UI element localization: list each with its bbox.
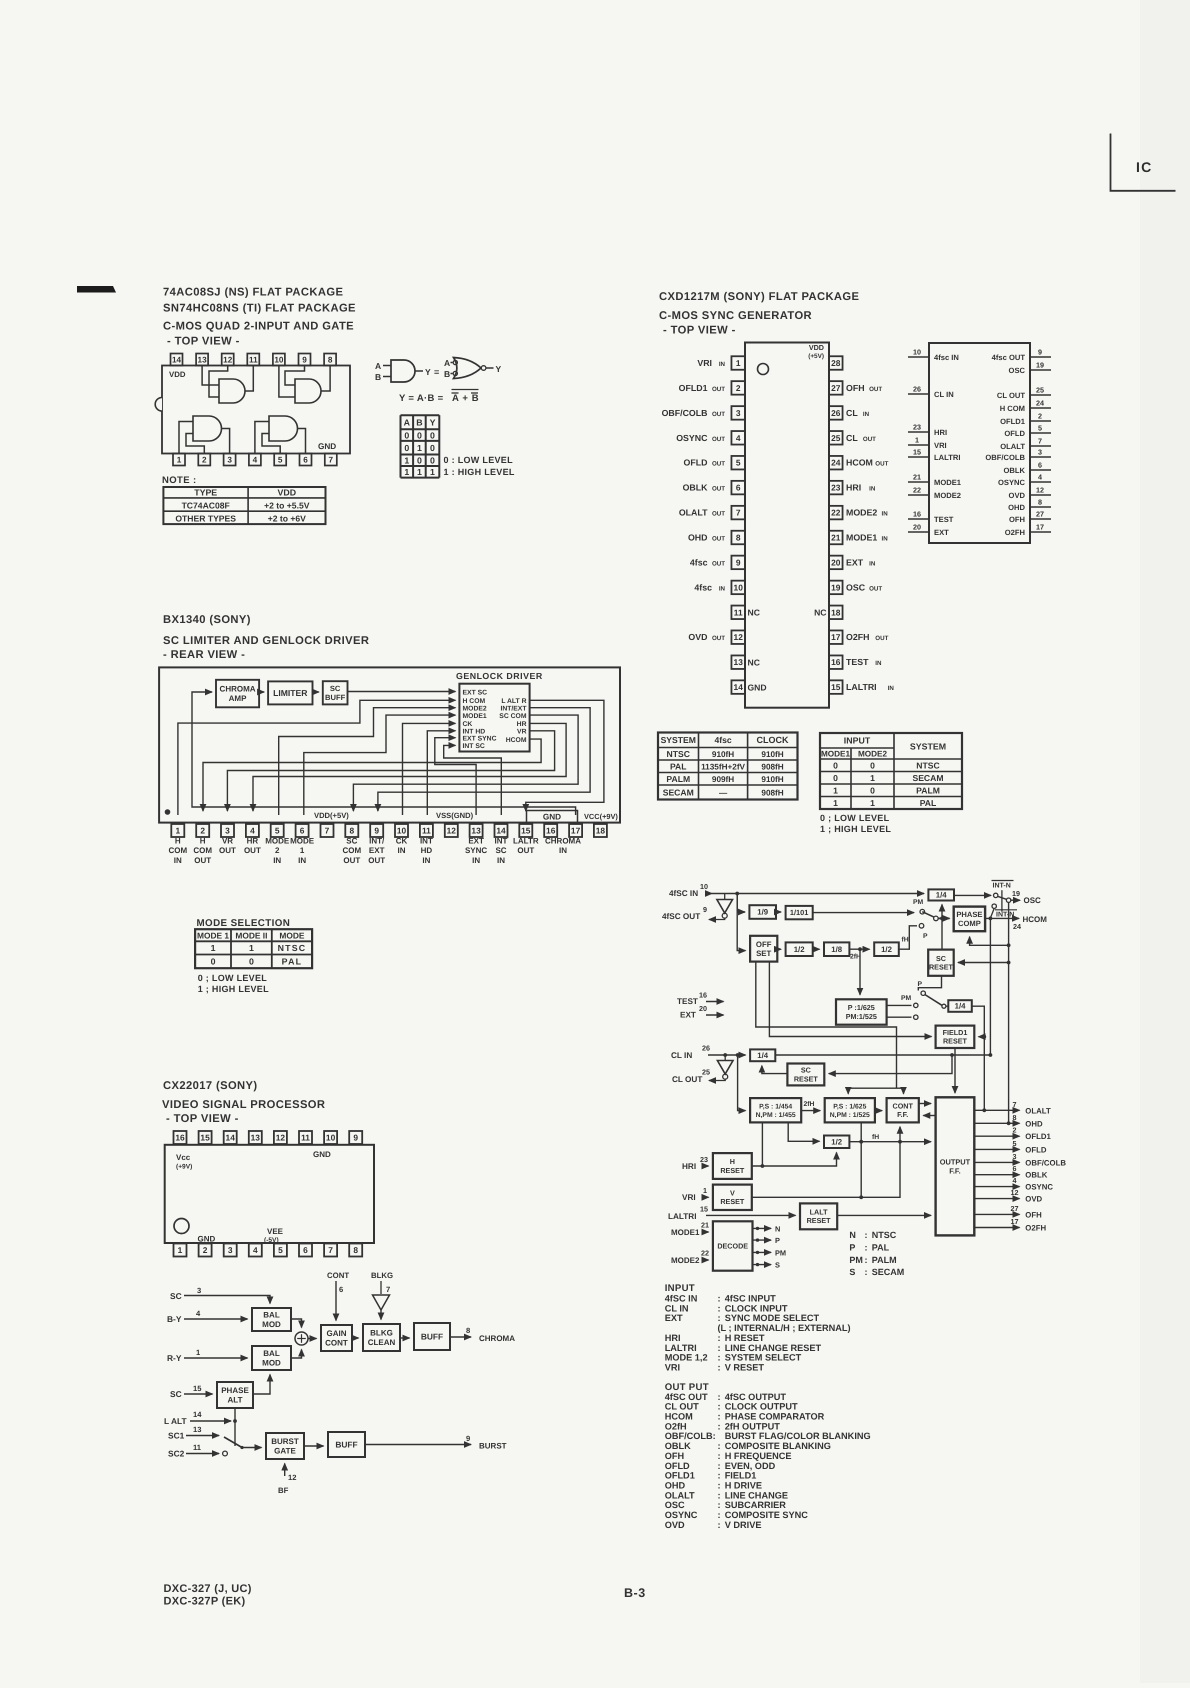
svg-text:1/2: 1/2 (831, 1138, 843, 1147)
svg-text:24: 24 (1013, 922, 1021, 931)
svg-text:16: 16 (913, 510, 921, 519)
svg-text:7: 7 (736, 508, 741, 518)
svg-text:S: S (775, 1261, 780, 1270)
svg-text:OFLD1: OFLD1 (679, 383, 708, 393)
svg-text:15: 15 (831, 682, 841, 692)
wire feedback to phase comp bottom (970, 937, 1009, 946)
svg-text:1: 1 (175, 826, 180, 836)
svg-text:N,PM : 1/455: N,PM : 1/455 (756, 1112, 796, 1119)
svg-text:PAL: PAL (872, 1243, 890, 1253)
svg-text:13: 13 (193, 1425, 201, 1434)
svg-text:MOD: MOD (262, 1359, 281, 1368)
svg-text:4: 4 (736, 433, 741, 443)
svg-text:28: 28 (831, 358, 841, 368)
svg-text:O2FH: O2FH (1005, 528, 1025, 537)
long vertical V2 (1008, 902, 1010, 1123)
svg-text:O2fH: O2fH (665, 1421, 687, 1431)
wire blkg clean to buff (400, 1337, 410, 1339)
wire 454 bottom right to 1/2c (788, 1122, 819, 1141)
svg-text:RESET: RESET (720, 1197, 745, 1206)
pin 13 U4 (249, 1131, 262, 1144)
svg-text:15: 15 (521, 826, 531, 836)
pin 17 U2 functional O2FH (1030, 531, 1051, 533)
pin 18 U3 (594, 824, 607, 837)
svg-text:SN74HC08NS (TI) FLAT PACKAGE: SN74HC08NS (TI) FLAT PACKAGE (163, 303, 356, 315)
block sc reset 2 (787, 1064, 824, 1086)
svg-text:4fSC IN: 4fSC IN (669, 889, 698, 898)
wire genlock INT/EXT to pin9 (378, 708, 590, 811)
svg-text:INT-N: INT-N (996, 912, 1014, 919)
switch lever to phase comp line (922, 912, 934, 918)
svg-text:F.F.: F.F. (897, 1110, 908, 1119)
svg-text:NTSC: NTSC (278, 943, 307, 953)
pin 2 U4 (199, 1244, 212, 1257)
svg-text:2: 2 (1013, 1126, 1017, 1135)
wire 625 to cont ff (875, 1110, 882, 1112)
svg-text:TC74AC08F: TC74AC08F (182, 501, 230, 511)
svg-text:25: 25 (702, 1068, 710, 1077)
svg-text:ALT: ALT (228, 1396, 243, 1405)
wire 454 to 625 (801, 1110, 820, 1112)
block chroma amp (216, 680, 259, 708)
svg-text:VSS(GND): VSS(GND) (436, 811, 474, 820)
svg-text:0: 0 (211, 957, 216, 967)
svg-text:OBLK: OBLK (683, 483, 709, 493)
svg-text:IN: IN (888, 685, 895, 692)
svg-text:9: 9 (736, 557, 741, 567)
svg-text:PAL: PAL (282, 957, 303, 967)
svg-text:5: 5 (278, 1245, 283, 1255)
svg-text:MODE 1,2: MODE 1,2 (665, 1353, 708, 1363)
pin 13 U2 (731, 655, 745, 669)
wire switch to burst gate (242, 1447, 262, 1449)
svg-text:4fSC IN: 4fSC IN (665, 1294, 698, 1304)
svg-text:CLEAN: CLEAN (368, 1338, 396, 1347)
wire 1/2b to switch P contact (899, 926, 917, 949)
pin 2 U3 (196, 824, 209, 837)
svg-text:RESET: RESET (807, 1216, 832, 1225)
block buff 2 (328, 1432, 365, 1457)
svg-text:CL IN: CL IN (665, 1303, 689, 1313)
svg-text:CL OUT: CL OUT (997, 391, 1025, 400)
svg-text:DXC-327 (J, UC): DXC-327 (J, UC) (164, 1583, 252, 1595)
svg-text:7: 7 (329, 455, 334, 464)
svg-text:OTHER TYPES: OTHER TYPES (175, 514, 236, 524)
pin 9 U4 (349, 1131, 362, 1144)
svg-text:MODE2: MODE2 (671, 1256, 700, 1265)
block off set (750, 936, 777, 962)
svg-text:GATE: GATE (274, 1447, 296, 1456)
svg-text:18: 18 (831, 607, 841, 617)
switch select tick (1001, 890, 1003, 912)
svg-text:OBF/COLB: OBF/COLB (985, 453, 1025, 462)
wire pin14 INTSC-IN to genlock (444, 745, 502, 815)
svg-text:OUT: OUT (219, 846, 236, 855)
pin 3 U2 functional OBF/COLB (1030, 456, 1051, 458)
svg-text:EXT: EXT (369, 846, 385, 855)
svg-text:OBLK: OBLK (1025, 1171, 1047, 1180)
svg-text:CL IN: CL IN (671, 1051, 692, 1060)
pin 9 U1 (299, 354, 311, 366)
svg-text:R-Y: R-Y (167, 1353, 182, 1363)
switch lever into 1/4b (925, 995, 942, 1006)
svg-text:B: B (416, 417, 422, 427)
svg-text:PALM: PALM (666, 774, 690, 784)
output OSYNC pin4 (974, 1186, 1019, 1188)
wire feedback branch to contff top (897, 1088, 904, 1094)
svg-text:0 : LOW LEVEL: 0 : LOW LEVEL (444, 455, 514, 465)
pin 9 U3 (370, 824, 383, 837)
legend system codes (849, 1230, 904, 1277)
block divider 1/2 c (824, 1136, 849, 1149)
svg-text:(+5V): (+5V) (808, 353, 824, 360)
svg-text:Y: Y (425, 367, 431, 377)
svg-text:0: 0 (870, 785, 875, 795)
pin 12 U1 (222, 354, 234, 366)
svg-text:OUT: OUT (863, 436, 876, 443)
wire from 1/101 line down into P625 (859, 949, 861, 995)
pin 3 U1 (224, 454, 236, 466)
block buff 1 (414, 1323, 450, 1350)
svg-text:OUT: OUT (712, 386, 725, 393)
svg-text:fH: fH (872, 1134, 879, 1141)
svg-text:OUT: OUT (194, 856, 211, 865)
inverter CL OUT (724, 1055, 726, 1060)
svg-text:OLALT: OLALT (679, 508, 708, 518)
svg-text:OSC: OSC (1024, 896, 1042, 905)
svg-text:4fSC OUTPUT: 4fSC OUTPUT (725, 1392, 787, 1402)
pin 1 U2 functional VRI (908, 444, 929, 446)
svg-text:SECAM: SECAM (663, 787, 694, 797)
svg-text:22: 22 (701, 1249, 709, 1258)
wire balmod2 to sum (291, 1350, 302, 1359)
svg-text:20: 20 (831, 557, 841, 567)
svg-text:OVD: OVD (665, 1520, 685, 1530)
svg-text:17: 17 (1036, 523, 1044, 532)
pin 17 U3 (569, 824, 582, 837)
svg-text:OUT: OUT (869, 585, 882, 592)
wire 1/4a vertical to sc reset (941, 905, 943, 950)
svg-text:1: 1 (417, 467, 422, 477)
pin 2 U2 (731, 381, 745, 395)
svg-text:22: 22 (831, 508, 841, 518)
svg-text:OUTPUT: OUTPUT (940, 1157, 971, 1166)
OSC switch contact (998, 896, 1007, 899)
svg-text:13: 13 (734, 657, 744, 667)
svg-text:OUT: OUT (875, 635, 888, 642)
svg-text:O2FH: O2FH (1025, 1224, 1046, 1233)
svg-text:OFLD: OFLD (1025, 1145, 1047, 1154)
svg-text:15: 15 (700, 1205, 708, 1214)
svg-text:4fSC INPUT: 4fSC INPUT (725, 1294, 776, 1304)
svg-text:23: 23 (913, 423, 921, 432)
svg-text:910fH: 910fH (761, 775, 783, 784)
svg-text:CHROMA: CHROMA (545, 837, 581, 846)
svg-text:17: 17 (831, 632, 841, 642)
wire 1/2c out to output ff (849, 1141, 931, 1143)
output OFH pin27 (974, 1213, 1019, 1215)
svg-text:11: 11 (422, 826, 431, 836)
svg-text:VEE: VEE (267, 1227, 284, 1236)
svg-text:TYPE: TYPE (194, 488, 217, 498)
svg-text:12: 12 (447, 826, 457, 836)
svg-text:21: 21 (831, 533, 841, 543)
pin 23 U2 functional HRI (908, 431, 929, 433)
svg-text:0 ; LOW LEVEL: 0 ; LOW LEVEL (198, 973, 268, 983)
svg-text:0: 0 (417, 430, 422, 440)
svg-text:LALTRI: LALTRI (934, 453, 960, 462)
svg-text:EVEN, ODD: EVEN, ODD (725, 1461, 776, 1471)
pin 4 U4 (249, 1244, 262, 1257)
svg-text:1: 1 (178, 1245, 183, 1255)
svg-text:HR: HR (247, 837, 259, 846)
net GND box (527, 811, 578, 823)
svg-text:OHD: OHD (665, 1480, 686, 1490)
svg-text:P: P (923, 933, 928, 940)
svg-text:H COM: H COM (463, 698, 486, 705)
svg-text:COM: COM (168, 846, 187, 855)
svg-text:H: H (200, 837, 206, 846)
switch lever (224, 1437, 242, 1448)
svg-text:2: 2 (736, 383, 741, 393)
svg-text:4fsc OUT: 4fsc OUT (992, 353, 1026, 362)
svg-text:IN: IN (869, 560, 876, 567)
svg-text:P :1/625: P :1/625 (848, 1003, 875, 1012)
svg-text:OSYNC: OSYNC (665, 1510, 698, 1520)
svg-text:6: 6 (1013, 1164, 1017, 1173)
pin 22 U2 (829, 506, 843, 519)
svg-text:IN: IN (869, 486, 876, 493)
svg-text:SUBCARRIER: SUBCARRIER (725, 1500, 787, 1510)
svg-text:10: 10 (397, 826, 407, 836)
svg-text:HRI: HRI (682, 1162, 696, 1171)
svg-text:IN: IN (472, 856, 480, 865)
svg-text:HRI: HRI (846, 483, 861, 493)
table mode input system (820, 733, 962, 809)
svg-text:Y: Y (496, 364, 502, 374)
svg-text:GND: GND (318, 442, 336, 451)
svg-text:NTSC: NTSC (916, 760, 939, 770)
IC U3 BX1340 outline (159, 667, 620, 822)
svg-text:25: 25 (1036, 386, 1044, 395)
wire pin11 INTHD-IN to genlock (427, 731, 455, 815)
block divider 1/9 (749, 905, 776, 919)
svg-text:12: 12 (1011, 1188, 1019, 1197)
svg-text:HCOM: HCOM (846, 458, 873, 468)
svg-text:Vcc: Vcc (176, 1153, 191, 1162)
wire 454 bottom left (761, 1122, 763, 1166)
svg-text:7: 7 (386, 1285, 390, 1294)
svg-text:1 ; HIGH LEVEL: 1 ; HIGH LEVEL (198, 984, 269, 994)
wire gain cont to blkg clean (352, 1337, 359, 1339)
pin 15 U3 (519, 824, 532, 837)
svg-text:OUT: OUT (712, 635, 725, 642)
output OFLD1 pin2 (974, 1135, 1019, 1137)
pin 8 U2 (731, 531, 745, 545)
decode output P (753, 1239, 772, 1241)
IC U2 CXD1217M package body (745, 343, 829, 708)
svg-text:1/9: 1/9 (757, 908, 769, 917)
svg-text:11: 11 (193, 1443, 202, 1452)
svg-text:OHD: OHD (688, 533, 708, 543)
svg-text:8: 8 (1038, 498, 1042, 507)
svg-text:OUT: OUT (712, 486, 725, 493)
svg-text:COMPOSITE SYNC: COMPOSITE SYNC (725, 1510, 809, 1520)
svg-text:SC: SC (330, 684, 341, 693)
svg-text::: : (718, 1520, 721, 1530)
svg-text:HD: HD (421, 846, 433, 855)
wire G4 out to pin6 (298, 429, 306, 454)
svg-text:OSC: OSC (846, 582, 866, 592)
decode output N (753, 1227, 772, 1229)
svg-text:11: 11 (734, 607, 743, 617)
svg-text::: : (718, 1451, 721, 1461)
svg-text:9: 9 (374, 826, 379, 836)
svg-text:BLKG: BLKG (371, 1271, 393, 1280)
svg-text:INT SC: INT SC (463, 743, 485, 750)
pin 9 U2 functional 4fsc OUT (1030, 356, 1051, 358)
block lalt reset (800, 1203, 837, 1229)
svg-text:PAL: PAL (920, 798, 937, 808)
svg-text:GND: GND (198, 1235, 216, 1244)
svg-text:5: 5 (736, 458, 741, 468)
svg-text:MODE1: MODE1 (671, 1228, 700, 1237)
svg-text:24: 24 (1036, 399, 1044, 408)
pin 4 U1 (249, 454, 261, 466)
svg-text:RESET: RESET (929, 963, 954, 972)
svg-text:4fSC OUT: 4fSC OUT (662, 912, 700, 921)
svg-text:OBF/COLB: OBF/COLB (1025, 1158, 1066, 1167)
svg-text:5: 5 (1013, 1139, 1017, 1148)
svg-text:1135fH+2fV: 1135fH+2fV (701, 762, 745, 771)
svg-text:IN: IN (174, 856, 182, 865)
svg-text:HCOM: HCOM (1023, 915, 1048, 924)
svg-text:EXT SYNC: EXT SYNC (463, 736, 497, 743)
svg-text:H: H (175, 837, 181, 846)
svg-text:P,S : 1/625: P,S : 1/625 (833, 1104, 866, 1111)
svg-text:24: 24 (831, 458, 841, 468)
svg-text:1: 1 (211, 943, 216, 953)
svg-text:908fH: 908fH (761, 762, 783, 771)
svg-text:OHD: OHD (1025, 1119, 1043, 1128)
svg-text:DECODE: DECODE (717, 1242, 748, 1251)
svg-text:26: 26 (913, 385, 921, 394)
svg-text:CL: CL (846, 433, 858, 443)
svg-text:AMP: AMP (229, 694, 247, 703)
svg-text:LALTR: LALTR (513, 837, 539, 846)
svg-text:VDD: VDD (169, 370, 186, 379)
pin 14 U2 (731, 680, 745, 694)
svg-text:SYSTEM SELECT: SYSTEM SELECT (725, 1353, 802, 1363)
svg-text:BUFF: BUFF (325, 693, 346, 702)
svg-text:COM: COM (193, 846, 212, 855)
svg-text::: : (718, 1362, 721, 1372)
inverter 4fsc out (724, 894, 726, 900)
svg-text:16: 16 (546, 826, 556, 836)
long vertical V1 (989, 918, 991, 1055)
svg-text:LIMITER: LIMITER (273, 688, 308, 698)
svg-text:0: 0 (430, 455, 435, 465)
svg-text:4fsc IN: 4fsc IN (934, 353, 959, 362)
svg-text:2: 2 (200, 826, 205, 836)
wire offset left bottom feedback (756, 962, 897, 1089)
svg-text:1: 1 (703, 1186, 707, 1195)
pin 6 U2 (731, 481, 745, 495)
svg-text:BAL: BAL (263, 1349, 280, 1358)
svg-text:B-3: B-3 (624, 1586, 646, 1600)
svg-text:1/4: 1/4 (757, 1051, 769, 1060)
svg-text:23: 23 (700, 1155, 708, 1164)
wire phase alt down to switch (234, 1408, 236, 1446)
gate body G2 (295, 379, 321, 403)
svg-text:23: 23 (831, 483, 841, 493)
svg-text:0: 0 (249, 957, 254, 967)
svg-text:7: 7 (328, 1245, 333, 1255)
wire CL to counters (738, 1055, 746, 1111)
svg-text:SC1: SC1 (168, 1431, 185, 1441)
svg-text:BUFF: BUFF (421, 1331, 443, 1341)
svg-text:7: 7 (1013, 1100, 1017, 1109)
svg-text:0: 0 (870, 760, 875, 770)
svg-text:H DRIVE: H DRIVE (725, 1480, 762, 1490)
svg-text:NTSC: NTSC (667, 749, 690, 759)
svg-text:- REAR VIEW -: - REAR VIEW - (163, 649, 245, 661)
svg-text:OFLD: OFLD (1004, 429, 1025, 438)
pin 15 U4 (199, 1131, 212, 1144)
wire 4fsc main (712, 893, 924, 895)
svg-text:4: 4 (253, 455, 258, 464)
svg-text:OUT: OUT (368, 856, 385, 865)
output OVD pin12 (974, 1198, 1019, 1200)
svg-text:2: 2 (203, 1245, 208, 1255)
svg-text:INPUT: INPUT (844, 736, 871, 746)
wire pin6 MODE1-IN to genlock (304, 715, 456, 815)
svg-text::: : (718, 1480, 721, 1490)
svg-text:OUT: OUT (712, 560, 725, 567)
svg-text:PM: PM (901, 995, 912, 1002)
svg-text:12: 12 (276, 1133, 286, 1143)
svg-text:BX1340 (SONY): BX1340 (SONY) (163, 614, 251, 626)
svg-text:IN: IN (273, 856, 281, 865)
svg-text:COMP: COMP (958, 919, 981, 928)
pin 17 U2 (829, 630, 843, 644)
svg-text:0: 0 (404, 430, 409, 440)
pin 6 U1 (300, 454, 312, 466)
svg-text:CONT: CONT (325, 1339, 348, 1348)
svg-text:OBF/COLB:: OBF/COLB: (665, 1431, 716, 1441)
svg-text:GND: GND (313, 1150, 331, 1159)
black index mark (77, 286, 116, 293)
svg-text:9: 9 (302, 355, 307, 364)
pin 24 U2 functional H COM (1030, 407, 1051, 409)
block divider 1/4 a (928, 889, 954, 900)
wire pin4 to G4 (255, 422, 269, 454)
svg-text:VRI: VRI (697, 358, 712, 368)
svg-text:=: = (434, 367, 439, 377)
svg-text:1/101: 1/101 (790, 908, 809, 917)
pin 14 U1 (171, 354, 183, 366)
svg-text:N: N (849, 1230, 856, 1240)
svg-text:1: 1 (404, 467, 409, 477)
svg-text:27: 27 (1011, 1204, 1019, 1213)
svg-text:OFLD: OFLD (684, 458, 708, 468)
svg-text:OUT: OUT (712, 511, 725, 518)
svg-text:0: 0 (430, 443, 435, 453)
svg-text:P: P (775, 1236, 780, 1245)
svg-text:PM:1/525: PM:1/525 (846, 1012, 877, 1021)
wire lalt reset to output ff (837, 1214, 931, 1216)
svg-text:1: 1 (915, 436, 919, 445)
